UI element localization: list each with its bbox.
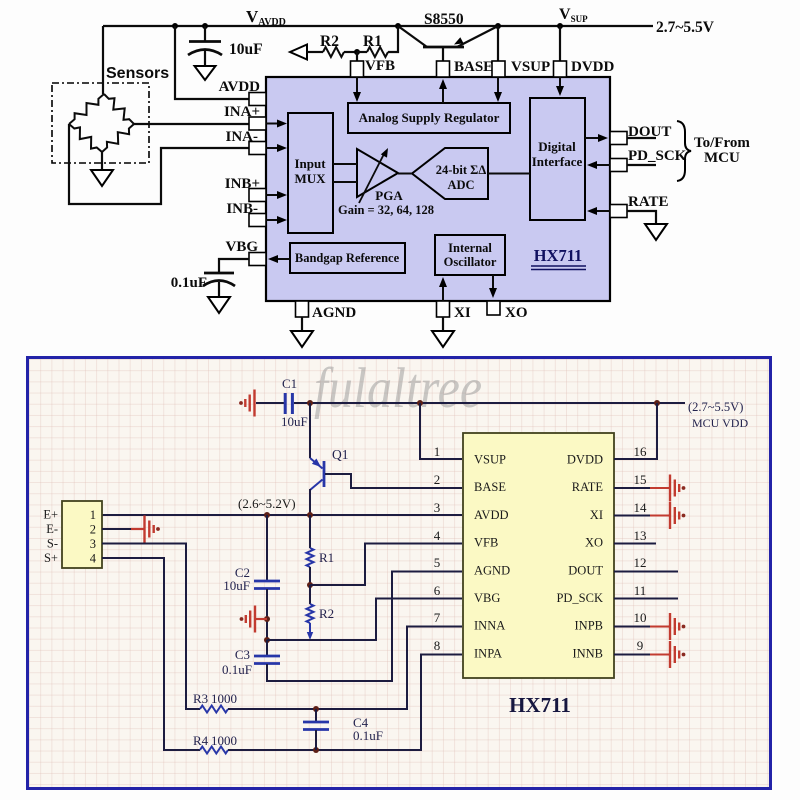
- op-amp PGA: [357, 148, 398, 203]
- wire rail to C2: [266, 515, 268, 581]
- ground below bridge: [91, 170, 113, 186]
- svg-text:RATE: RATE: [628, 194, 669, 210]
- svg-text:INA-: INA-: [226, 129, 259, 145]
- block Internal Oscillator: [435, 235, 505, 275]
- ground below 10uF: [195, 66, 216, 80]
- svg-text:0.1uF: 0.1uF: [222, 662, 252, 677]
- pin INB+: [225, 176, 266, 202]
- svg-text:INB+: INB+: [225, 176, 260, 192]
- block Bandgap Reference: [290, 243, 405, 273]
- resistor R2: [323, 47, 357, 57]
- svg-text:XO: XO: [585, 536, 603, 550]
- svg-text:BASE: BASE: [474, 480, 506, 494]
- wire MCU VDD rail: [294, 400, 685, 406]
- arrow INA- to MUX: [266, 144, 287, 152]
- label R1: [363, 33, 382, 50]
- arrow VFB into regulator: [353, 77, 361, 102]
- wire pin11 PD_SCK: [614, 583, 678, 599]
- block Input MUX: [288, 113, 333, 233]
- svg-text:MCU VDD: MCU VDD: [692, 416, 748, 430]
- svg-text:(2.7~5.5V): (2.7~5.5V): [688, 400, 743, 414]
- resistor R1: [357, 47, 388, 57]
- label S+: [44, 551, 58, 565]
- label R4: [193, 733, 237, 748]
- ground below RATE: [645, 224, 667, 240]
- chip left pin labels: [474, 453, 510, 661]
- arrow INA+ to MUX: [266, 120, 287, 128]
- label R2 bottom: [319, 606, 334, 621]
- svg-text:6: 6: [434, 583, 441, 598]
- svg-text:3: 3: [90, 537, 96, 551]
- block Digital Interface: [530, 98, 585, 220]
- svg-text:8: 8: [434, 638, 441, 653]
- label 2.7-5.5V: [688, 400, 743, 414]
- svg-text:2: 2: [90, 523, 96, 537]
- wire C3 to AGND pin5: [267, 572, 462, 682]
- svg-text:PD_SCK: PD_SCK: [556, 591, 603, 605]
- wire R1 to rail: [388, 26, 398, 52]
- pin RATE: [610, 194, 669, 218]
- svg-text:12: 12: [634, 555, 647, 570]
- svg-text:10uF: 10uF: [223, 578, 250, 593]
- no-connect pin14: [669, 502, 686, 529]
- svg-text:AGND: AGND: [312, 305, 356, 321]
- svg-text:5: 5: [434, 555, 441, 570]
- bridge resistor bottom-left: [69, 124, 102, 152]
- svg-text:10uF: 10uF: [281, 414, 308, 429]
- bridge resistor top-left: [69, 94, 104, 124]
- svg-text:Bandgap Reference: Bandgap Reference: [295, 251, 400, 265]
- arrow INB- to MUX: [266, 216, 287, 224]
- label Q1: [332, 447, 349, 462]
- wire node to R2: [309, 585, 311, 604]
- node VFB: [354, 49, 360, 61]
- block Analog Supply Regulator: [348, 103, 510, 133]
- label C4 value: [353, 728, 383, 743]
- svg-text:Analog Supply Regulator: Analog Supply Regulator: [359, 110, 500, 125]
- svg-text:BASE: BASE: [454, 59, 493, 75]
- wire PGA to ADC: [398, 173, 412, 175]
- label HX711 top: [531, 246, 586, 270]
- svg-text:0.1uF: 0.1uF: [353, 728, 383, 743]
- wire AVDD rail: [102, 512, 462, 518]
- ground below AGND: [291, 331, 313, 347]
- label HX711 bottom: [509, 693, 571, 717]
- svg-text:PD_SCK: PD_SCK: [628, 148, 687, 164]
- wire R3 to pin7: [228, 627, 462, 713]
- svg-text:7: 7: [434, 610, 441, 625]
- label C3 value: [222, 662, 252, 677]
- svg-text:4: 4: [90, 552, 97, 566]
- pin5 number: [434, 555, 441, 570]
- label S-: [47, 537, 58, 551]
- label R2: [320, 33, 339, 50]
- svg-text:VSUP: VSUP: [511, 59, 550, 75]
- wire pin16 DVDD: [614, 403, 657, 459]
- svg-text:E-: E-: [46, 522, 58, 536]
- svg-text:AVDD: AVDD: [474, 508, 509, 522]
- wire pin13 XO: [614, 528, 656, 544]
- svg-text:1000: 1000: [211, 733, 237, 748]
- svg-text:XI: XI: [454, 305, 471, 321]
- svg-text:To/From: To/From: [694, 135, 750, 151]
- label V_SUP: [559, 6, 588, 24]
- wire S+ path: [102, 558, 200, 750]
- svg-text:INA+: INA+: [224, 104, 260, 120]
- wire node to C3: [266, 640, 268, 656]
- pin PD_SCK: [610, 148, 687, 172]
- svg-text:10: 10: [634, 610, 647, 625]
- svg-text:VAVDD: VAVDD: [246, 7, 286, 28]
- pin8 number: [434, 638, 441, 653]
- wire bridge bottom to ground: [101, 152, 103, 170]
- wire E- to ground: [102, 528, 131, 530]
- label R3: [193, 691, 237, 706]
- label R1 bottom: [319, 550, 334, 565]
- svg-text:R1: R1: [319, 550, 334, 565]
- svg-text:24-bit ΣΔ: 24-bit ΣΔ: [436, 163, 487, 177]
- brace To/From MCU: [677, 121, 691, 181]
- wire S- path: [102, 544, 200, 710]
- AGND arrow symbol: [290, 45, 323, 60]
- wire C2 to node: [264, 589, 270, 643]
- arrow XI into oscillator: [439, 277, 447, 301]
- svg-text:VFB: VFB: [474, 536, 498, 550]
- wire R2 to VBG node: [307, 623, 313, 640]
- label E-: [46, 522, 58, 536]
- svg-text:XI: XI: [590, 508, 603, 522]
- arrow BASE out: [439, 79, 447, 103]
- pin INA-: [226, 129, 267, 155]
- svg-text:R3: R3: [193, 691, 208, 706]
- svg-text:4: 4: [434, 528, 441, 543]
- svg-text:XO: XO: [505, 305, 528, 321]
- svg-text:E+: E+: [43, 508, 58, 522]
- pin7 number: [434, 610, 441, 625]
- label Gain: [338, 203, 434, 217]
- ground below 0.1uF: [208, 297, 230, 313]
- svg-text:C1: C1: [282, 376, 297, 391]
- wire rail to R1: [309, 515, 311, 548]
- node V_AVDD junction dots: [172, 23, 563, 29]
- wire pin1 VSUP: [420, 403, 462, 459]
- wire AGND stub: [301, 317, 303, 331]
- wire rail to bridge: [102, 26, 104, 94]
- svg-text:MUX: MUX: [294, 171, 326, 186]
- wire pin9 INNB: [614, 638, 669, 655]
- wire INA+: [134, 123, 249, 125]
- svg-text:R2: R2: [320, 33, 339, 50]
- chip right pin labels: [556, 453, 603, 661]
- svg-text:VBG: VBG: [225, 239, 258, 255]
- pin AVDD: [219, 79, 266, 106]
- pin2 number: [434, 472, 441, 487]
- svg-text:(2.6~5.2V): (2.6~5.2V): [238, 496, 296, 511]
- wire INA-: [69, 124, 249, 204]
- capacitor C4: [303, 709, 329, 750]
- pin XO: [487, 301, 528, 321]
- no-connect pin9: [669, 641, 686, 668]
- resistor R2 bottom: [307, 604, 314, 623]
- capacitor 10uF: [188, 26, 222, 66]
- wire R4 to pin8: [228, 655, 462, 754]
- power ground at E-: [131, 516, 160, 543]
- label S8550: [424, 11, 464, 28]
- svg-text:MCU: MCU: [704, 150, 740, 166]
- resistor R4: [200, 747, 228, 754]
- connector J1: [62, 501, 102, 568]
- svg-text:PGA: PGA: [375, 188, 403, 203]
- pin VSUP: [492, 59, 550, 77]
- svg-text:INB-: INB-: [226, 201, 258, 217]
- svg-text:VSUP: VSUP: [474, 453, 506, 467]
- arrow DVDD into DI: [556, 77, 564, 96]
- label C3: [235, 647, 250, 662]
- svg-text:AVDD: AVDD: [219, 79, 261, 95]
- resistor R1 bottom: [307, 548, 314, 567]
- wire XI stub: [442, 317, 444, 331]
- svg-text:S8550: S8550: [424, 11, 464, 28]
- svg-text:AGND: AGND: [474, 563, 510, 577]
- IC HX711 block: [266, 77, 610, 301]
- svg-text:16: 16: [634, 444, 648, 459]
- wire R1 to node: [307, 567, 313, 588]
- capacitor C1: [285, 393, 292, 414]
- label 10uF: [229, 41, 263, 58]
- transistor Q1: [310, 458, 324, 490]
- label C1 value: [281, 414, 308, 429]
- wire AVDD: [175, 26, 249, 99]
- pin DOUT: [610, 124, 671, 145]
- label 2.6-5.2V: [238, 496, 296, 511]
- svg-text:9: 9: [637, 638, 644, 653]
- svg-text:ADC: ADC: [447, 178, 474, 192]
- wire Q1 collector: [309, 489, 311, 515]
- no-connect pin10: [669, 613, 686, 640]
- block 24-bit ADC: [412, 148, 488, 199]
- pin DVDD: [554, 59, 615, 77]
- svg-text:15: 15: [634, 472, 647, 487]
- wire pin14 XI: [614, 500, 669, 516]
- wire VSUP drop: [497, 26, 499, 61]
- svg-text:INPB: INPB: [575, 619, 603, 633]
- capacitor C3: [254, 656, 280, 664]
- pin3 number: [434, 500, 441, 515]
- svg-text:VBG: VBG: [474, 591, 500, 605]
- svg-text:R4: R4: [193, 733, 209, 748]
- label 0.1uF: [171, 275, 207, 291]
- label MCU VDD: [692, 416, 748, 430]
- svg-text:R1: R1: [363, 33, 382, 50]
- bridge resistor top-right: [104, 94, 134, 124]
- label Sensors: [106, 65, 169, 82]
- wire ADC to DI: [488, 173, 530, 175]
- svg-text:Oscillator: Oscillator: [444, 255, 497, 269]
- svg-text:11: 11: [634, 583, 647, 598]
- svg-text:3: 3: [434, 500, 441, 515]
- svg-text:Interface: Interface: [532, 154, 583, 169]
- svg-text:Internal: Internal: [448, 241, 492, 255]
- arrow VSUP into regulator: [494, 77, 502, 102]
- pin INA+: [224, 104, 266, 130]
- label C1: [282, 376, 297, 391]
- svg-text:DVDD: DVDD: [567, 453, 603, 467]
- svg-text:VSUP: VSUP: [559, 6, 588, 24]
- pin6 number: [434, 583, 441, 598]
- svg-text:1: 1: [90, 508, 96, 522]
- wire pin12 DOUT: [614, 555, 678, 572]
- wire V_AVDD top rail: [103, 25, 653, 27]
- pin VFB: [351, 58, 396, 77]
- wire MUX to PGA: [333, 164, 357, 182]
- bridge resistor bottom-right: [102, 124, 134, 152]
- label E+: [43, 508, 58, 522]
- svg-text:DVDD: DVDD: [571, 59, 614, 75]
- svg-text:14: 14: [634, 500, 648, 515]
- label C2: [235, 565, 250, 580]
- no-connect pin15: [669, 475, 686, 502]
- svg-text:1: 1: [434, 444, 441, 459]
- power ground near C1: [239, 390, 284, 417]
- wire pin10 INPB: [614, 610, 669, 627]
- svg-text:RATE: RATE: [572, 480, 604, 494]
- label To/From: [694, 135, 750, 151]
- sensor dashed box: [52, 83, 149, 163]
- wire VFB to pin4: [310, 544, 462, 586]
- wire DVDD drop: [559, 26, 561, 61]
- wire C1 to Q1 emitter: [309, 403, 311, 458]
- svg-text:Input: Input: [294, 156, 326, 171]
- pin XI: [437, 301, 471, 321]
- arrow DI to DOUT: [585, 134, 608, 142]
- svg-text:10uF: 10uF: [229, 41, 263, 58]
- label MCU: [704, 150, 740, 166]
- svg-text:Sensors: Sensors: [106, 65, 169, 82]
- svg-text:Digital: Digital: [538, 139, 576, 154]
- wire DOUT: [627, 137, 656, 139]
- svg-text:HX711: HX711: [534, 246, 583, 265]
- label 2.7~5.5V: [656, 19, 715, 36]
- pin BASE: [437, 59, 494, 77]
- svg-text:0.1uF: 0.1uF: [171, 275, 207, 291]
- arrow XO from oscillator: [489, 275, 497, 298]
- svg-text:2.7~5.5V: 2.7~5.5V: [656, 19, 715, 36]
- label C2 value: [223, 578, 250, 593]
- svg-text:INNA: INNA: [474, 619, 505, 633]
- svg-text:1000: 1000: [211, 691, 237, 706]
- svg-text:Gain = 32, 64, 128: Gain = 32, 64, 128: [338, 203, 434, 217]
- schematic sheet frame: [26, 356, 772, 790]
- svg-text:INPA: INPA: [474, 646, 502, 660]
- svg-text:INNB: INNB: [572, 646, 603, 660]
- svg-text:S+: S+: [44, 551, 58, 565]
- wire PD_SCK: [627, 164, 656, 166]
- wire VBG: [219, 259, 249, 273]
- arrow PD_SCK into DI: [587, 161, 610, 169]
- label V_AVDD: [246, 7, 286, 28]
- svg-text:S-: S-: [47, 537, 58, 551]
- wire pin15 RATE: [614, 472, 669, 488]
- pin INB-: [226, 201, 266, 227]
- wire VBG node to pin6: [267, 599, 462, 641]
- svg-text:R2: R2: [319, 606, 334, 621]
- ground below XI: [432, 331, 454, 347]
- svg-text:Q1: Q1: [332, 447, 349, 462]
- pin AGND: [296, 301, 357, 321]
- label PGA: [375, 188, 403, 203]
- svg-text:13: 13: [634, 528, 647, 543]
- transistor S8550: [398, 26, 498, 61]
- wire RATE: [627, 211, 656, 224]
- capacitor 0.1uF: [203, 273, 235, 297]
- svg-text:HX711: HX711: [509, 693, 571, 717]
- arrow INB+ to MUX: [266, 191, 287, 199]
- resistor R3: [200, 706, 228, 713]
- arrow RATE into DI: [587, 207, 610, 215]
- arrow Bandgap to VBG: [268, 255, 290, 263]
- capacitor C2: [254, 581, 280, 589]
- IC HX711 bottom: [463, 433, 614, 678]
- pin VBG: [225, 239, 266, 266]
- power ground at C2: [240, 606, 267, 633]
- pin4 number: [434, 528, 441, 543]
- label C4: [353, 715, 369, 730]
- svg-text:DOUT: DOUT: [568, 563, 603, 577]
- svg-text:C3: C3: [235, 647, 250, 662]
- svg-text:VFB: VFB: [365, 58, 395, 74]
- wire Q1 base to pin2: [325, 474, 462, 488]
- svg-text:2: 2: [434, 472, 441, 487]
